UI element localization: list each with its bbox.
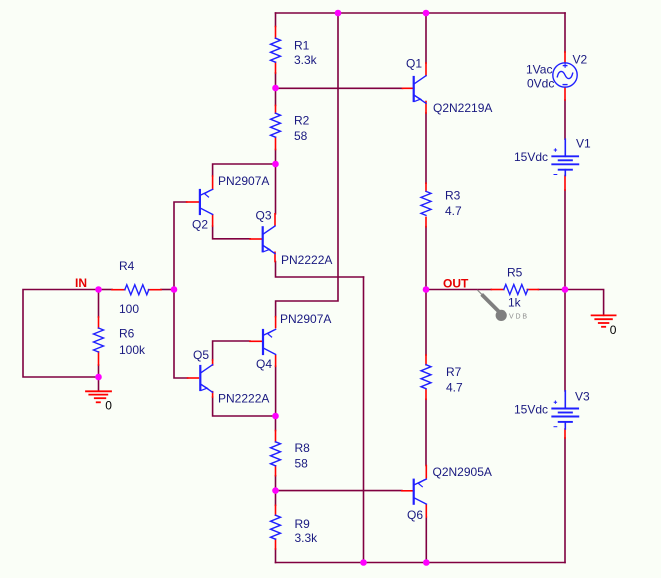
pin R9 top [275,505,277,515]
wire top rail to Q4 emitter via x=338 [276,13,338,317]
svg-text:1k: 1k [508,296,522,310]
node R2-Q3-Q2 junction [272,161,279,168]
transistor Q3 [263,226,275,254]
svg-text:R1: R1 [294,38,310,52]
svg-text:4.7: 4.7 [445,204,462,218]
pin Q6 emitter [425,466,427,478]
wire node to right ground [565,290,604,316]
wire top rail [276,12,566,14]
resistor R6 [94,328,104,352]
svg-text:R7: R7 [446,365,462,379]
node bottom rail / x363 [360,559,367,566]
pin R1 top [275,27,277,39]
pin Q6 collector [425,505,427,517]
svg-text:PN2907A: PN2907A [280,312,331,326]
wire R9 bottom to rail [275,549,277,563]
svg-text:PN2907A: PN2907A [218,174,269,188]
wire R3 bottom to OUT node [425,227,427,290]
svg-text:PN2222A: PN2222A [281,253,332,267]
wire V2 top [564,13,566,52]
wire Q2 collector to Q3 base [213,226,251,239]
svg-text:R9: R9 [295,517,311,531]
svg-text:R5: R5 [507,265,523,279]
svg-text:V1: V1 [576,137,591,151]
pin Q1 emitter [425,102,427,114]
wire Q3 emitter down and right [276,262,364,278]
wire R5 to V rail node [538,289,565,291]
wire Q2 base left [174,202,187,290]
pin Q6 base [402,490,414,492]
svg-text:15Vdc: 15Vdc [514,150,548,164]
wire node row to Q1 base [276,87,403,89]
pin V3 bottom [564,429,566,438]
svg-text:Q5: Q5 [193,348,209,362]
svg-text:15Vdc: 15Vdc [514,402,548,416]
svg-text:R6: R6 [119,327,135,341]
pin R9 bottom [275,539,277,549]
resistor R4 [125,285,149,295]
voltage source V2 (AC) [553,63,577,87]
wire R7 bottom to Q6 emitter [425,399,427,465]
resistor R3 [421,191,431,215]
wire R1 branch top [275,13,277,27]
wire node to Q6 base [276,490,402,492]
svg-text:Q2: Q2 [192,217,208,231]
wire Q2 emitter to R2 node [213,164,276,176]
wire IN node to R6 top [98,290,100,318]
pin R4 right [149,289,161,291]
pin Q1 collector [425,63,427,76]
probe VDB marker [478,290,507,321]
pin R7 bottom [425,390,427,400]
pin Q3 collector [274,214,276,225]
wire x=363 vertical to bottom rail [363,277,365,563]
node OUT [423,286,430,293]
node R1-R2 junction [272,85,279,92]
node V rail mid [562,286,569,293]
pin Q4 emitter [275,317,277,328]
pin Q4 collector [275,356,277,367]
pin R8 top [275,431,277,442]
pin R2 bottom [275,137,277,149]
resistor R8 [271,442,281,466]
pin R4 left [112,289,125,291]
wire IN node to R4 [99,289,113,291]
pin Q4 base [250,340,262,342]
pin Q2 base [187,201,199,203]
wire R2 bottom to node [275,150,277,165]
svg-text:100k: 100k [119,343,146,357]
pin V2 bottom [564,87,566,100]
pin R3 bottom [425,217,427,226]
svg-text:Q3: Q3 [256,208,272,222]
wire R1 bottom to node [275,73,277,88]
ground left (0) [86,391,111,402]
pin Q2 emitter [212,176,214,189]
resistor R7 [421,365,431,389]
transistor Q6 [414,479,427,504]
wire V2 bottom to V1 top [564,100,566,139]
wire ground stem left [98,377,100,391]
svg-text:OUT: OUT [443,276,469,290]
svg-text:3.3k: 3.3k [294,53,318,67]
wire OUT node to R5 [426,289,491,291]
resistor R5 [504,285,528,295]
svg-text:R4: R4 [119,259,135,273]
node R6-ground junction [95,374,102,381]
wire Q1 emitter to R3 [425,113,427,183]
wire R6 bottom to ground node [98,365,100,377]
resistor R9 [271,515,281,539]
svg-text:Q6: Q6 [407,508,423,522]
ground right (0) [592,315,616,326]
svg-text:IN: IN [75,276,87,290]
node top rail / x338 [335,10,342,17]
svg-text:Q4: Q4 [256,357,272,371]
node Q4-Q5-R8 junction [272,413,279,420]
svg-text:4.7: 4.7 [446,380,463,394]
pin R8 bottom [275,466,277,476]
pin R1 bottom [275,62,277,73]
pin Q1 base [403,87,414,89]
node R8-R9-Q6 junction [272,487,279,494]
wire Q1 collector top [425,13,427,63]
svg-text:V3: V3 [575,389,590,403]
svg-text:Q1: Q1 [406,56,422,70]
resistor R1 [271,38,281,62]
pin Q5 base [188,377,199,379]
svg-text:R3: R3 [445,188,461,202]
voltage source V1 (battery) [552,139,578,175]
transistor Q1 [414,76,426,104]
svg-text:58: 58 [295,456,309,470]
svg-text:100: 100 [119,302,139,316]
voltage source V3 (battery) [552,391,578,429]
pin Q5 emitter [212,392,214,397]
wire OUT node down to R7 [425,290,427,356]
node bottom rail / Q6 collector [423,559,430,566]
svg-text:58: 58 [294,129,308,143]
svg-text:V2: V2 [573,52,588,66]
svg-text:R8: R8 [295,441,311,455]
resistor R2 [271,113,281,137]
svg-text:3.3k: 3.3k [295,531,319,545]
wire V3 bottom to rail [564,438,566,563]
svg-text:0: 0 [610,323,617,337]
pin Q3 emitter [274,252,276,261]
wire IN loop left [23,290,99,378]
wire Q5 emitter to node [213,397,276,416]
wire V1 bottom to node [564,190,566,290]
pin Q2 collector [212,215,214,226]
wire node to V3 top [564,290,566,391]
pin V1 bottom [564,176,566,191]
pin R2 top [275,105,277,113]
wire node to Q3 collector [275,164,277,214]
wire node to R2 top [275,88,277,105]
pin R5 left [491,289,504,291]
node R4 right [171,286,178,293]
pin R3 top [425,183,427,191]
wire bottom rail [276,562,566,564]
pin R6 top [98,317,100,328]
wire R4 to x=174 [161,289,174,291]
wire Q5 base left [174,290,188,379]
node IN [95,286,102,293]
svg-text:Q2N2219A: Q2N2219A [433,101,492,115]
pin R5 right [527,289,538,291]
pin Q5 collector [212,360,214,365]
wire node to R9 top [275,491,277,506]
svg-text:0: 0 [105,399,112,413]
transistor Q4 [263,329,276,354]
svg-text:Q2N2905A: Q2N2905A [433,465,492,479]
svg-text:1Vac: 1Vac [526,62,552,76]
pin R7 top [425,355,427,365]
svg-text:PN2222A: PN2222A [218,391,269,405]
svg-text:VDB: VDB [509,314,529,321]
wire node to R8 top [275,416,277,431]
svg-text:0Vdc: 0Vdc [527,76,554,90]
transistor Q2 [200,189,213,214]
transistor Q5 [200,365,212,393]
svg-text:R2: R2 [294,113,310,127]
pin V2 top [564,52,566,63]
pin Q3 base [250,238,262,240]
wire Q5 collector to Q4 base [213,341,250,360]
wire Q6 collector to bottom rail [425,517,427,563]
wire R8 bottom to node [275,476,277,491]
wire Q4 collector to node [275,366,277,416]
node top rail / Q1 collector [423,10,430,17]
pin R6 bottom [98,352,100,365]
